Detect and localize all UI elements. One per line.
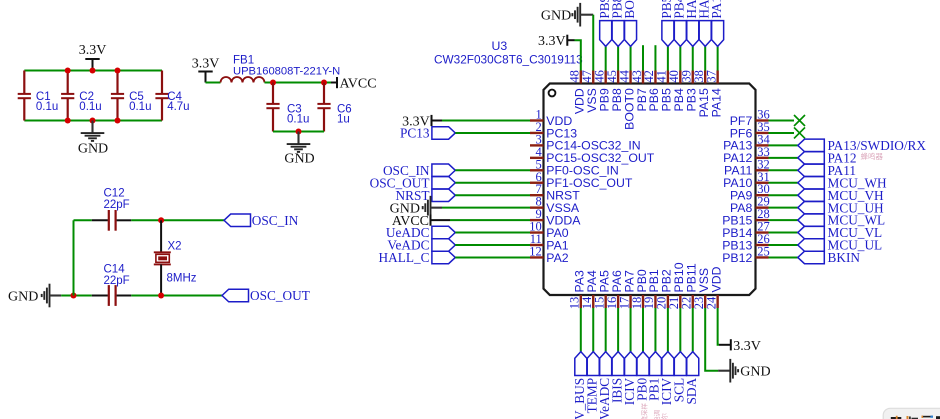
svg-text:22pF: 22pF bbox=[104, 275, 130, 287]
wire bbox=[442, 120, 530, 122]
wire bbox=[265, 82, 332, 84]
wire bbox=[705, 308, 718, 371]
power port AVCC (pin9) bbox=[392, 214, 450, 229]
junction bbox=[65, 68, 71, 74]
svg-text:CW32F030C8T6_C3019113: CW32F030C8T6_C3019113 bbox=[434, 52, 583, 66]
svg-text:X2: X2 bbox=[168, 240, 182, 252]
svg-text:0.1u: 0.1u bbox=[79, 101, 101, 113]
pin 30 PA9 bbox=[730, 182, 770, 202]
svg-text:UPB160808T-221Y-N: UPB160808T-221Y-N bbox=[233, 65, 340, 77]
junction bbox=[158, 217, 164, 223]
svg-text:12: 12 bbox=[529, 244, 542, 258]
junction bbox=[115, 68, 121, 74]
svg-text:0.1u: 0.1u bbox=[129, 101, 151, 113]
capacitor C3 bbox=[266, 83, 309, 132]
net port UeADC bbox=[386, 225, 455, 240]
svg-text:GND: GND bbox=[740, 364, 770, 379]
wire bbox=[580, 308, 582, 352]
pin 43 PB7 bbox=[630, 70, 649, 111]
pin 34 PA13 bbox=[723, 132, 770, 152]
svg-text:AVCC: AVCC bbox=[340, 77, 377, 92]
net port BKIN bbox=[798, 250, 861, 265]
junction bbox=[296, 129, 302, 135]
pin 23 VSS bbox=[692, 268, 711, 309]
wire bbox=[769, 132, 795, 134]
pin 33 PA12 bbox=[723, 145, 770, 165]
pin 31 PA10 bbox=[723, 170, 770, 190]
net port PA13/SWDIO/RX bbox=[798, 138, 927, 153]
label U3 bbox=[434, 39, 583, 67]
wire bbox=[273, 131, 324, 133]
net port HALL_A bbox=[684, 0, 699, 46]
wire bbox=[769, 219, 798, 221]
pin 36 PF7 bbox=[730, 108, 770, 128]
svg-text:BOOT0: BOOT0 bbox=[622, 0, 637, 19]
pin 20 PB2 bbox=[655, 269, 674, 309]
wire bbox=[592, 308, 594, 352]
watermark box bbox=[883, 408, 940, 419]
wire bbox=[455, 194, 530, 196]
svg-text:3.3V: 3.3V bbox=[538, 34, 566, 49]
wire bbox=[679, 308, 681, 352]
capacitor C14 bbox=[92, 263, 132, 306]
wire bbox=[131, 295, 222, 297]
wire bbox=[24, 120, 162, 122]
annotation (esc) bbox=[652, 410, 669, 419]
capacitor C5 bbox=[111, 71, 152, 121]
pin 44 BOOT0 bbox=[617, 69, 636, 130]
pin 18 PB0 bbox=[630, 269, 649, 309]
svg-text:8MHz: 8MHz bbox=[167, 272, 197, 284]
power flag 3.3V (pin1) bbox=[402, 114, 442, 129]
svg-text:4.7u: 4.7u bbox=[167, 101, 189, 113]
net port PA12 bbox=[798, 150, 857, 165]
net port ICIV bbox=[659, 352, 674, 406]
svg-text:24: 24 bbox=[704, 296, 718, 309]
capacitor C1 bbox=[18, 71, 59, 121]
wire bbox=[605, 308, 607, 352]
power flag 3.3V (cap bank) bbox=[79, 43, 107, 70]
svg-text:SDA: SDA bbox=[684, 378, 699, 405]
svg-text:3.3V: 3.3V bbox=[733, 339, 761, 354]
wire bbox=[654, 45, 656, 70]
net port PB5 bbox=[659, 0, 674, 46]
pin 29 PA8 bbox=[730, 195, 770, 215]
pin 17 PA7 bbox=[617, 270, 636, 309]
pin 48 VDD bbox=[568, 70, 587, 114]
wire bbox=[769, 157, 798, 159]
pin 35 PF6 bbox=[730, 120, 770, 140]
mcu U3 body bbox=[544, 84, 756, 296]
svg-text:3.3V: 3.3V bbox=[192, 57, 220, 72]
net port OSC_OUT (pin6) bbox=[370, 175, 456, 190]
wire bbox=[630, 46, 632, 70]
capacitor C4 bbox=[155, 71, 189, 121]
wire bbox=[450, 219, 530, 221]
svg-text:1u: 1u bbox=[337, 113, 350, 125]
net port PA14 bbox=[709, 0, 724, 46]
svg-text:PC13: PC13 bbox=[400, 126, 430, 141]
wire bbox=[455, 182, 530, 184]
wire bbox=[717, 46, 719, 70]
no-connect X bbox=[794, 115, 805, 126]
pin 9 VDDA bbox=[530, 207, 581, 227]
wire bbox=[642, 308, 644, 352]
net port SCL bbox=[672, 352, 687, 403]
pin 40 PB4 bbox=[667, 70, 686, 111]
pin 28 PB15 bbox=[722, 207, 770, 227]
pin 41 PB5 bbox=[655, 70, 674, 111]
pin 45 PB8 bbox=[605, 70, 624, 111]
net port MCU_VH bbox=[798, 188, 884, 203]
wire bbox=[455, 244, 530, 246]
junction bbox=[115, 118, 121, 124]
svg-text:PA14: PA14 bbox=[709, 0, 724, 19]
wire bbox=[679, 46, 681, 70]
capacitor C12 bbox=[92, 187, 132, 230]
svg-text:C14: C14 bbox=[104, 263, 126, 275]
wire bbox=[692, 46, 694, 70]
ground (pin47 VSS) bbox=[541, 3, 593, 27]
pin 3 PC14-OSC32_IN bbox=[530, 132, 641, 152]
wire bbox=[630, 308, 632, 352]
ground (pin8 VSSA) bbox=[390, 196, 442, 220]
junction bbox=[90, 118, 96, 124]
annotation (current sense) bbox=[640, 403, 649, 419]
wire bbox=[61, 295, 92, 297]
power flag 3.3V (pin48) bbox=[538, 34, 575, 49]
net port TEMP bbox=[585, 352, 600, 414]
net port OSC_IN (pin5) bbox=[383, 163, 455, 178]
wire bbox=[769, 244, 798, 246]
wire bbox=[442, 207, 530, 209]
capacitor C2 bbox=[61, 71, 102, 121]
net port MCU_WL bbox=[798, 213, 885, 228]
pin 22 PB11 bbox=[680, 263, 699, 309]
wire bbox=[769, 169, 798, 171]
net port OSC_OUT bbox=[222, 288, 310, 303]
net port SDA bbox=[684, 352, 699, 405]
wire bbox=[455, 169, 530, 171]
svg-text:PA14: PA14 bbox=[709, 88, 723, 117]
wire bbox=[575, 40, 581, 70]
wire bbox=[74, 219, 92, 221]
svg-text:OSC_IN: OSC_IN bbox=[252, 213, 299, 228]
junction bbox=[90, 68, 96, 74]
net port MCU_UL bbox=[798, 238, 882, 253]
net port NRST bbox=[396, 188, 456, 203]
pin 46 PB9 bbox=[592, 70, 611, 111]
svg-text:0.1u: 0.1u bbox=[287, 113, 309, 125]
pin 4 PC15-OSC32_OUT bbox=[530, 145, 655, 165]
svg-text:蜂鸣器: 蜂鸣器 bbox=[861, 151, 884, 161]
svg-text:U3: U3 bbox=[492, 39, 508, 53]
net port BOOT0 bbox=[622, 0, 637, 46]
net port PB1 bbox=[647, 352, 662, 401]
wire bbox=[455, 256, 530, 258]
svg-text:GND: GND bbox=[78, 141, 108, 156]
net port V_BUS bbox=[572, 352, 587, 419]
net port PB8 bbox=[609, 0, 624, 46]
wire bbox=[718, 308, 719, 345]
pin 2 PC13 bbox=[530, 120, 577, 140]
pin 6 PF1-OSC_OUT bbox=[530, 170, 633, 190]
pin 15 PA5 bbox=[592, 270, 611, 309]
junction bbox=[71, 293, 77, 299]
net port IBIS bbox=[609, 352, 624, 403]
wire bbox=[667, 308, 669, 352]
wire bbox=[692, 308, 694, 352]
ground (cap bank) bbox=[78, 121, 108, 157]
pin 7 NRST bbox=[530, 182, 580, 202]
ground (pin23 VSS) bbox=[718, 359, 771, 383]
wire bbox=[769, 120, 795, 122]
pin 42 PB6 bbox=[642, 70, 661, 111]
crystal X2 bbox=[154, 220, 197, 295]
wire bbox=[617, 46, 619, 70]
pin 24 VDD bbox=[704, 266, 723, 309]
pin 12 PA2 bbox=[529, 244, 568, 264]
svg-text:25: 25 bbox=[757, 244, 770, 258]
svg-text:GND: GND bbox=[8, 290, 38, 305]
junction bbox=[270, 80, 276, 86]
svg-text:霍尔: 霍尔 bbox=[659, 413, 668, 419]
net port MCU_VL bbox=[798, 225, 882, 240]
junction bbox=[321, 80, 327, 86]
wire bbox=[654, 308, 656, 352]
net port ICIV bbox=[622, 352, 637, 406]
svg-text:C12: C12 bbox=[104, 187, 125, 199]
svg-text:PA2: PA2 bbox=[546, 251, 568, 265]
wire bbox=[617, 308, 619, 352]
pin 14 PA4 bbox=[580, 270, 599, 309]
net port PB9 bbox=[597, 0, 612, 46]
pin 19 PB1 bbox=[642, 269, 661, 309]
junction bbox=[65, 118, 71, 124]
pin 11 PA1 bbox=[530, 232, 569, 252]
svg-text:电流采样: 电流采样 bbox=[640, 403, 649, 419]
svg-text:0.1u: 0.1u bbox=[36, 101, 58, 113]
pin 47 VSS bbox=[580, 70, 599, 113]
wire bbox=[642, 45, 644, 70]
ground (FB1) bbox=[284, 132, 314, 167]
net port MCU_UH bbox=[798, 200, 884, 215]
wire bbox=[667, 46, 669, 70]
wire bbox=[206, 82, 221, 84]
net port VeADC bbox=[597, 352, 612, 419]
wire bbox=[769, 144, 798, 146]
net port PA11 bbox=[798, 163, 856, 178]
wire bbox=[605, 46, 607, 70]
no-connect X bbox=[794, 127, 805, 138]
pin 10 PA0 bbox=[529, 220, 568, 240]
svg-text:BKIN: BKIN bbox=[828, 250, 861, 265]
pin 27 PB14 bbox=[722, 220, 770, 240]
wire bbox=[24, 70, 162, 72]
wire bbox=[455, 232, 530, 234]
pin 38 PA15 bbox=[692, 70, 711, 117]
wire bbox=[769, 194, 798, 196]
wire bbox=[131, 219, 224, 221]
junction bbox=[158, 293, 164, 299]
net port PC13 bbox=[400, 126, 455, 141]
net port VeADC bbox=[387, 238, 455, 253]
pin 21 PB10 bbox=[667, 262, 686, 309]
svg-text:HALL_C: HALL_C bbox=[379, 250, 430, 265]
power flag 3.3V (pin24) bbox=[719, 339, 761, 354]
wire bbox=[455, 132, 530, 134]
svg-text:GND: GND bbox=[284, 151, 314, 166]
pin 16 PA6 bbox=[605, 270, 624, 309]
wire bbox=[73, 220, 75, 295]
wire bbox=[769, 182, 798, 184]
net port OSC_IN bbox=[224, 213, 299, 228]
svg-text:OSC_OUT: OSC_OUT bbox=[250, 288, 310, 303]
pin 32 PA11 bbox=[724, 157, 770, 177]
svg-text:3.3V: 3.3V bbox=[79, 43, 107, 58]
wire bbox=[769, 207, 798, 209]
pin 1 VDD bbox=[530, 108, 572, 128]
net port PB0 bbox=[634, 352, 649, 401]
wire bbox=[769, 232, 798, 234]
net port HALL_C bbox=[379, 250, 456, 265]
annotation buzzer bbox=[861, 151, 884, 161]
capacitor C6 bbox=[317, 83, 351, 132]
ferrite bead FB1 bbox=[221, 54, 341, 82]
pin 26 PB13 bbox=[722, 232, 770, 252]
wire bbox=[704, 46, 706, 70]
pin 13 PA3 bbox=[568, 270, 587, 309]
svg-text:ESC电调: ESC电调 bbox=[652, 410, 661, 419]
net port MCU_WH bbox=[798, 175, 887, 190]
pin 8 VSSA bbox=[530, 195, 580, 215]
pin 39 PB3 bbox=[680, 70, 699, 111]
power port AVCC bbox=[331, 77, 377, 92]
ground (crystal) bbox=[8, 284, 61, 308]
svg-text:37: 37 bbox=[704, 70, 718, 83]
wire bbox=[592, 15, 594, 71]
svg-text:PB12: PB12 bbox=[722, 251, 752, 265]
svg-text:22pF: 22pF bbox=[104, 199, 130, 211]
wire bbox=[769, 256, 798, 258]
svg-text:GND: GND bbox=[541, 8, 571, 23]
pin 37 PA14 bbox=[704, 70, 723, 117]
net port PB4 bbox=[672, 0, 687, 46]
svg-text:VDD: VDD bbox=[709, 266, 723, 292]
net port HALL_B bbox=[697, 0, 712, 46]
pin 25 PB12 bbox=[722, 244, 770, 264]
power flag 3.3V (FB1) bbox=[192, 57, 220, 83]
pin 5 PF0-OSC_IN bbox=[530, 157, 619, 177]
